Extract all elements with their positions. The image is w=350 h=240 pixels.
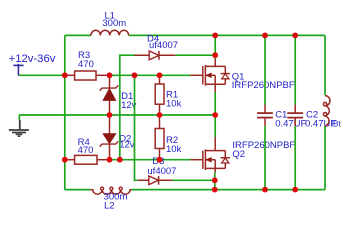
svg-text:10k: 10k <box>166 99 182 110</box>
svg-text:L2: L2 <box>104 200 115 211</box>
svg-text:470: 470 <box>78 145 94 156</box>
wire: bottom rail left of L2 <box>65 189 91 191</box>
svg-text:12v: 12v <box>119 140 135 151</box>
inductor L2 <box>90 190 131 195</box>
svg-text:uf4007: uf4007 <box>147 166 176 177</box>
node: D4 branch on gate2 <box>117 157 123 163</box>
node: R2 bottom <box>157 157 163 163</box>
resistor R3 <box>65 74 75 76</box>
wire: bottom rail right of L2 <box>132 189 326 191</box>
node: D4 cathode / drain1 <box>212 52 218 58</box>
node: left rail / gate1 <box>62 72 68 78</box>
wire: D4 vertical from gate2 <box>120 55 136 160</box>
wire: drain1 column <box>214 35 216 59</box>
svg-text:IRFP260NPBF: IRFP260NPBF <box>232 80 295 91</box>
wire: Q2 source down <box>214 168 216 172</box>
wire: D3 to Q2 source column <box>172 179 214 181</box>
svg-text:+12v-36v: +12v-36v <box>9 53 56 65</box>
wire: Q1 source down <box>214 84 216 92</box>
svg-text:Q2: Q2 <box>232 149 245 160</box>
wire: +12v feed to left rail <box>18 74 64 76</box>
svg-text:lBt: lBt <box>331 119 341 128</box>
mosfet Q2 <box>191 149 230 170</box>
wire: gate1 row <box>110 74 191 76</box>
wire: D4 to drain1 <box>175 54 215 56</box>
node: C2 top <box>292 33 298 39</box>
wire: gate2 row <box>110 159 191 161</box>
node: left rail / gate2 <box>62 157 68 163</box>
node: Q1 source / Q2 drain <box>212 112 218 118</box>
node: R1/R2 mid <box>157 112 163 118</box>
wire: right rail lower <box>324 126 326 190</box>
node: R1 top <box>157 72 163 78</box>
node: D2 bottom <box>107 157 113 163</box>
node: C1 top <box>262 33 268 39</box>
zener D1 <box>109 75 111 88</box>
resistor R2 <box>159 115 161 129</box>
inductor lBt (work coil) <box>323 96 330 126</box>
node: D1 top <box>107 72 113 78</box>
ground <box>9 120 29 136</box>
diode D3 <box>138 179 173 181</box>
wire: Q2 drain column <box>214 115 216 137</box>
node: D3 / Q2 source <box>212 177 218 183</box>
svg-text:470: 470 <box>78 59 94 70</box>
resistor R4 <box>65 159 75 161</box>
wire: top rail right of L1 <box>129 34 325 36</box>
wire: D3 vertical from gate1 <box>135 75 138 180</box>
power port +12v-36v <box>13 64 23 76</box>
node: D3 branch on gate1 <box>132 72 138 78</box>
wire: ground drop <box>18 115 20 121</box>
mosfet Q1 <box>191 59 230 86</box>
svg-text:300m: 300m <box>102 18 126 29</box>
capacitor C2 <box>294 35 296 104</box>
svg-text:uf4007: uf4007 <box>149 40 178 51</box>
capacitor C1 <box>264 35 266 104</box>
wire: mid ground rail <box>19 114 215 116</box>
inductor L1 <box>91 30 129 35</box>
diode D4 <box>134 54 175 56</box>
wire: left rail <box>64 35 66 189</box>
svg-text:0.47UF: 0.47UF <box>275 118 306 129</box>
node: C1 bottom <box>262 187 268 193</box>
node: C2 bottom <box>292 187 298 193</box>
zener D2 <box>109 115 111 134</box>
node: zener mid <box>107 112 113 118</box>
resistor R1 <box>159 75 161 84</box>
node: drain1 top <box>212 33 218 39</box>
node: Q2 source / bottom rail <box>212 187 218 193</box>
wire: right rail upper <box>324 35 326 95</box>
wire: top rail left of L1 <box>65 34 91 36</box>
svg-text:10k: 10k <box>166 144 182 155</box>
